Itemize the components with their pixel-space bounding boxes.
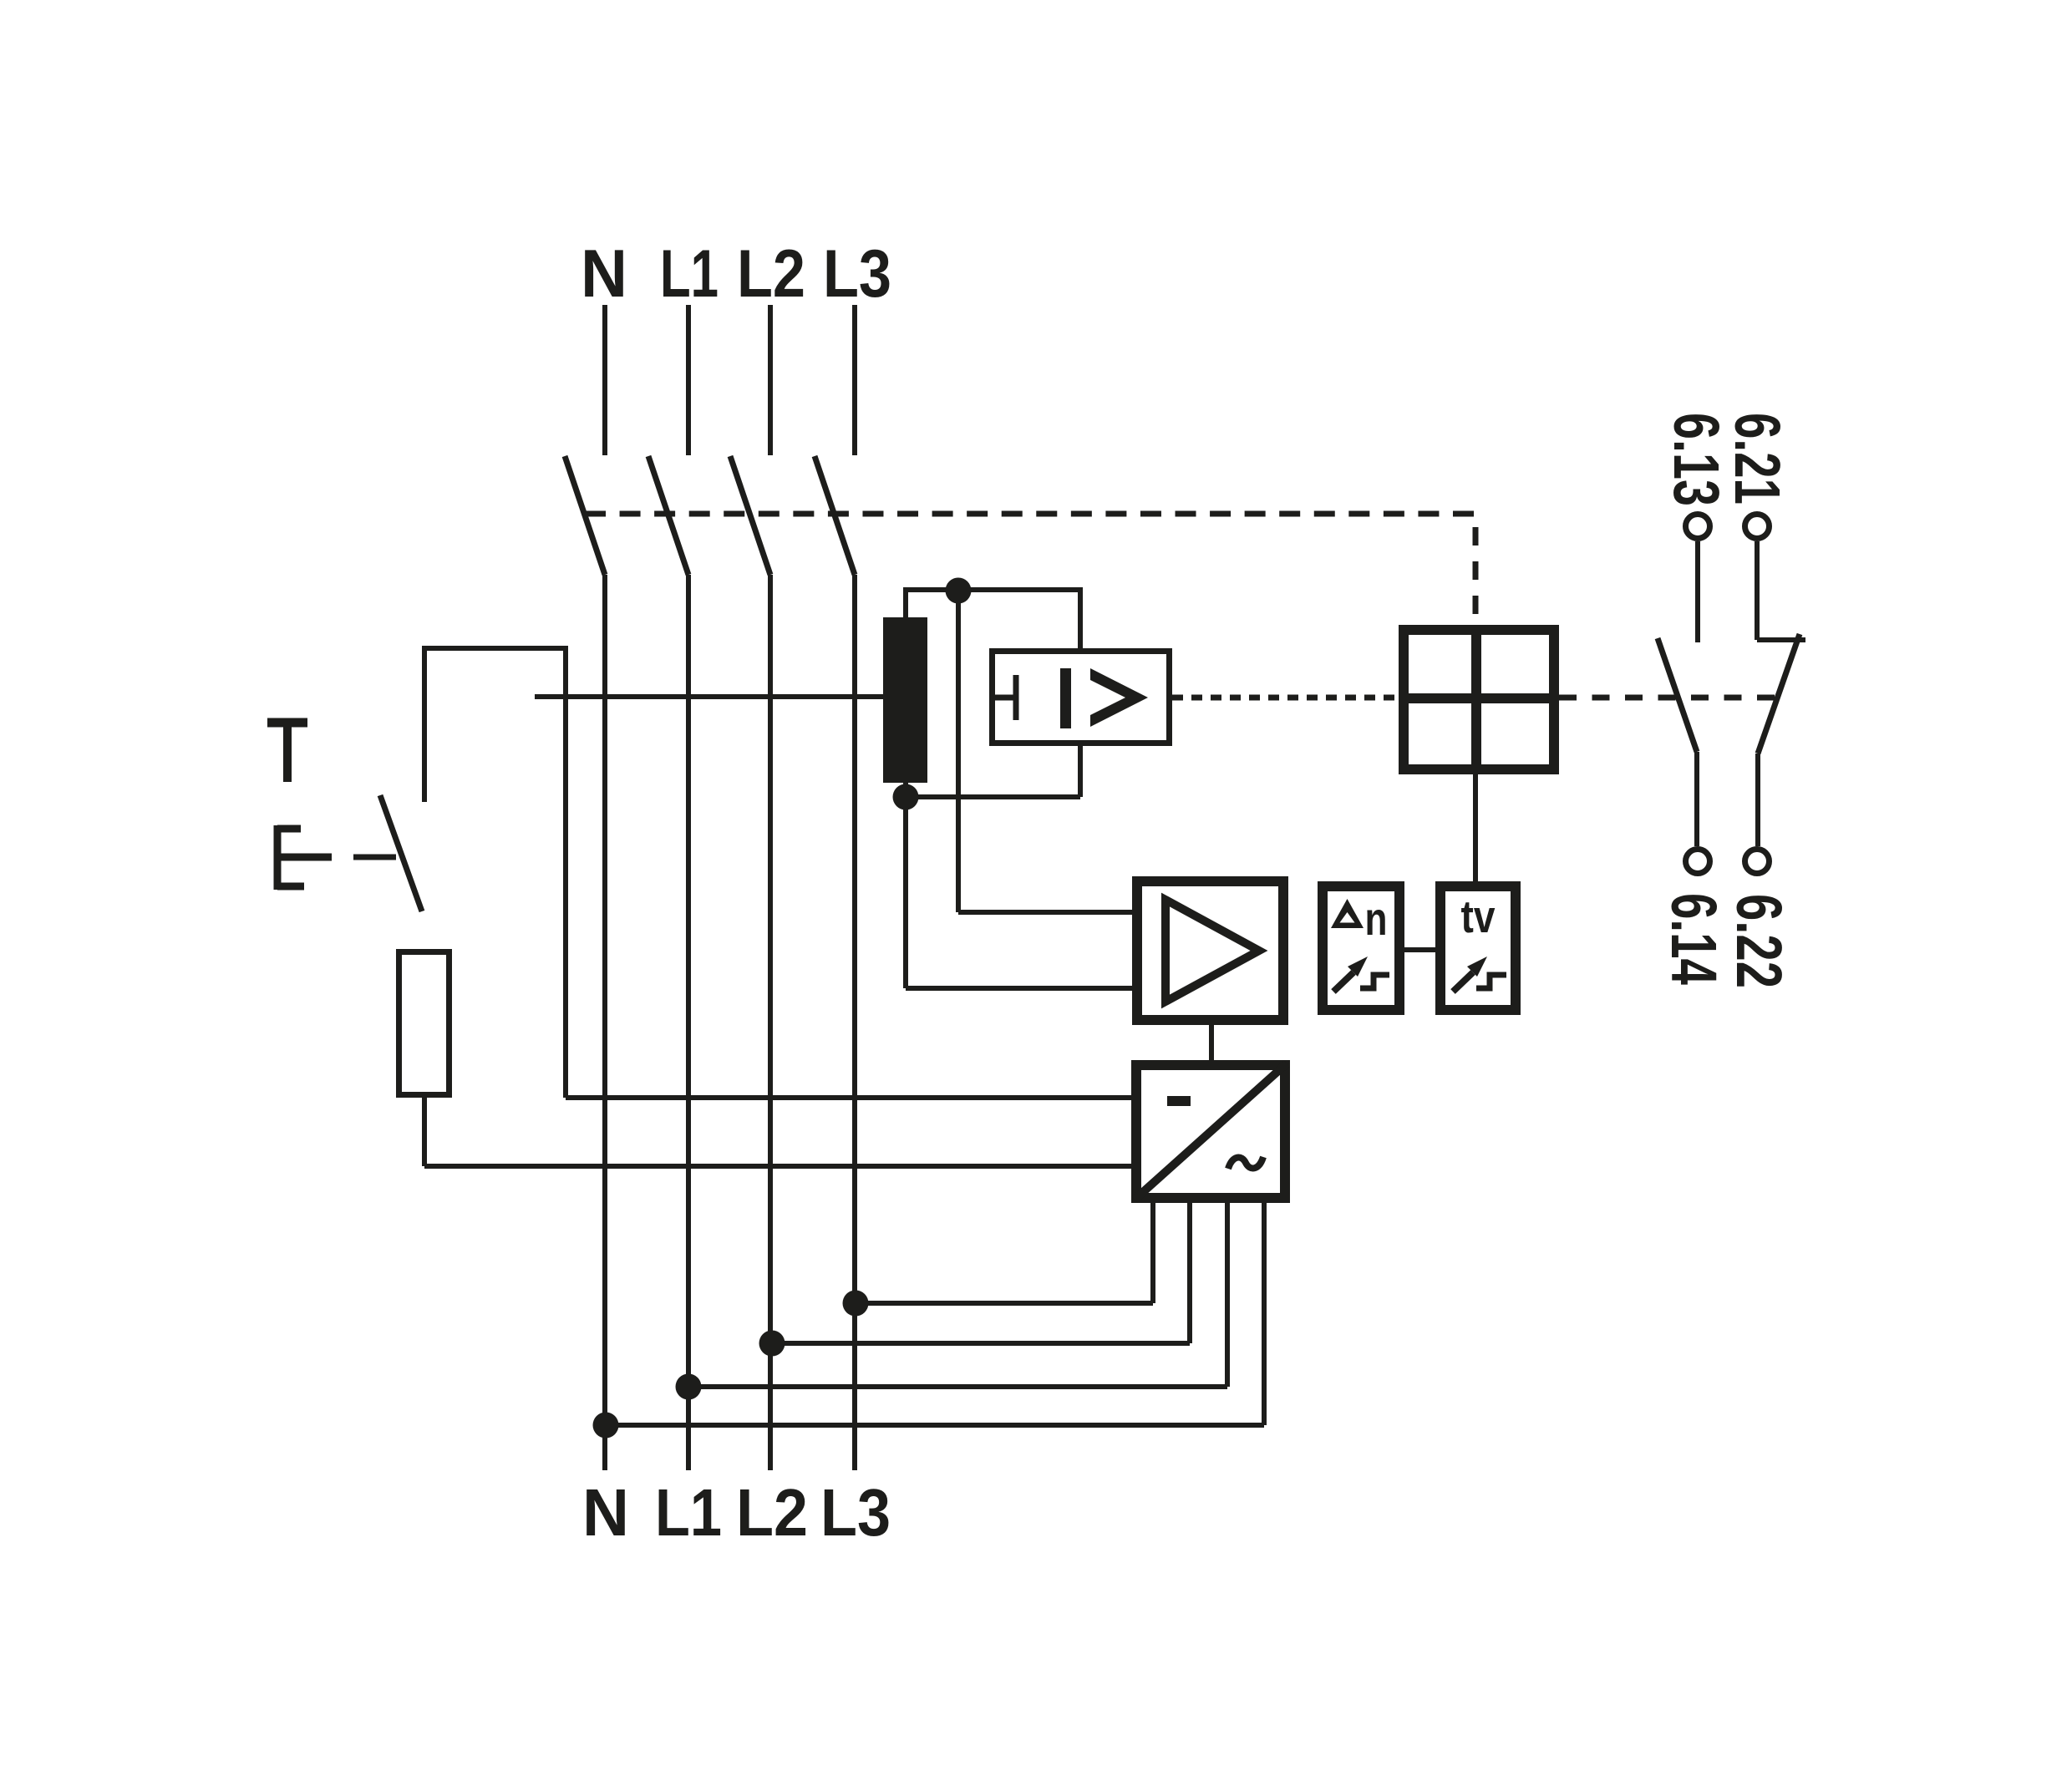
delta symbol bbox=[1331, 899, 1364, 928]
secondary winding loop top bbox=[903, 587, 1080, 592]
secondary winding loop bottom stub bbox=[903, 783, 908, 799]
step symbol tv bbox=[1476, 975, 1506, 988]
trip coil cross bbox=[1399, 693, 1559, 703]
I bar symbol bbox=[1060, 668, 1071, 728]
test button contact blade bbox=[380, 795, 422, 911]
wire amplifier to power supply bbox=[1209, 1025, 1214, 1060]
delta-n threshold box bbox=[1323, 886, 1399, 1010]
wire 6.14 terminal bbox=[1694, 752, 1699, 846]
wire sensing B vertical bbox=[903, 797, 908, 988]
svg-text:L3: L3 bbox=[823, 236, 891, 312]
svg-text:N: N bbox=[582, 1475, 629, 1550]
svg-text:L1: L1 bbox=[655, 1475, 722, 1550]
DC minus symbol bbox=[1167, 1096, 1191, 1106]
mechanical link dashed to aux contacts bbox=[1559, 695, 1775, 701]
power supply output wire 2 bbox=[1187, 1203, 1192, 1343]
svg-text:L1: L1 bbox=[660, 236, 719, 312]
secondary winding loop bottom bbox=[906, 794, 1080, 799]
secondary winding loop right bbox=[1078, 587, 1083, 797]
mechanical link dashed line bbox=[585, 511, 1474, 517]
aux terminal 6.13 bbox=[1686, 515, 1710, 539]
mechanical link dashed corner down to trip coil bbox=[1473, 527, 1479, 625]
junction dot bottom bbox=[893, 784, 919, 810]
amplifier triangle bbox=[1165, 900, 1259, 1002]
wire test upper bbox=[422, 648, 427, 802]
resistor R test bbox=[399, 952, 449, 1095]
junction dot L1 bbox=[676, 1374, 702, 1400]
step symbol delta-n bbox=[1360, 975, 1389, 988]
svg-text:tv: tv bbox=[1461, 891, 1496, 942]
wire L1 main bbox=[686, 575, 691, 1470]
current transformer core W1 bbox=[883, 617, 927, 783]
switch pole L3 bbox=[815, 456, 855, 575]
wire sensing A to amplifier bbox=[958, 910, 1132, 915]
junction dot L3 bbox=[843, 1291, 869, 1317]
wire L1 top bbox=[686, 305, 691, 455]
aux NO contact blade 6.13-6.14 bbox=[1658, 638, 1697, 752]
svg-text:6.22: 6.22 bbox=[1723, 894, 1795, 988]
aux terminal 6.22 bbox=[1745, 850, 1770, 874]
overcurrent detector I> box bbox=[993, 652, 1170, 743]
wire test right vertical bbox=[563, 646, 568, 1098]
power supply output wire 4 bbox=[1262, 1203, 1267, 1425]
adjustable delay arrow bbox=[1453, 972, 1473, 992]
svg-text:N: N bbox=[581, 236, 627, 312]
greater-than symbol bbox=[1090, 668, 1148, 727]
wire to L2 tap bbox=[772, 1341, 1190, 1346]
AC tilde symbol bbox=[1228, 1157, 1263, 1169]
wire delta-n to tv bbox=[1404, 947, 1435, 952]
switch pole L2 bbox=[730, 456, 770, 575]
dotted trip line I> to coil bbox=[1172, 695, 1399, 701]
adjustable threshold arrow bbox=[1333, 972, 1353, 992]
wire 6.22 terminal bbox=[1755, 754, 1760, 846]
svg-text:n: n bbox=[1365, 892, 1388, 945]
wire 6.13 terminal bbox=[1695, 541, 1700, 642]
wire below resistor bbox=[422, 1098, 427, 1166]
svg-text:6.21: 6.21 bbox=[1721, 413, 1793, 505]
secondary winding stub top bbox=[903, 590, 908, 617]
wire L3 main bbox=[852, 575, 857, 1470]
time delay tv box bbox=[1440, 886, 1516, 1010]
trip coil box bbox=[1404, 630, 1554, 769]
test button link bbox=[353, 855, 396, 860]
power supply output wire 1 bbox=[1150, 1203, 1155, 1303]
aux terminal 6.21 bbox=[1745, 515, 1770, 539]
test button label T bbox=[267, 723, 307, 782]
wire L3 top bbox=[852, 305, 857, 455]
wire N top bbox=[602, 305, 607, 455]
wire sensing B to amplifier bbox=[906, 986, 1132, 991]
junction dot top bbox=[946, 578, 972, 604]
wire to electronics lower input bbox=[424, 1164, 1131, 1169]
wire sensing A vertical bbox=[956, 591, 961, 912]
wire 6.21 terminal bbox=[1755, 541, 1760, 640]
svg-text:L3: L3 bbox=[820, 1475, 891, 1550]
svg-text:L2: L2 bbox=[736, 1475, 808, 1550]
aux terminal 6.14 bbox=[1686, 850, 1710, 874]
wire N main bbox=[602, 575, 607, 1470]
switch pole L1 bbox=[648, 456, 688, 575]
wire to electronics upper input bbox=[566, 1095, 1131, 1100]
switch pole N bbox=[565, 456, 605, 575]
aux NC contact blade 6.21-6.22 bbox=[1758, 634, 1800, 754]
wire L2 top bbox=[768, 305, 773, 455]
power supply diagonal bbox=[1135, 1063, 1287, 1200]
test push-button actuator bbox=[277, 825, 332, 890]
power supply output wire 3 bbox=[1225, 1203, 1230, 1387]
I> input tap symbol bbox=[993, 675, 1016, 720]
wire through current transformer bbox=[535, 694, 883, 699]
wire test top horizontal bbox=[422, 646, 568, 651]
power supply box bbox=[1136, 1065, 1285, 1198]
wire to L3 tap bbox=[856, 1301, 1153, 1306]
svg-text:6.14: 6.14 bbox=[1658, 893, 1729, 985]
wire to N tap bbox=[606, 1423, 1264, 1428]
svg-text:L2: L2 bbox=[737, 236, 805, 312]
wire to L1 tap bbox=[688, 1384, 1227, 1389]
aux NC contact seat bbox=[1757, 637, 1805, 642]
junction dot N bbox=[593, 1413, 619, 1439]
junction dot L2 bbox=[759, 1331, 785, 1357]
amplifier box bbox=[1137, 881, 1283, 1020]
wire L2 main bbox=[768, 575, 773, 1470]
wire trip coil to tv bbox=[1473, 774, 1478, 881]
